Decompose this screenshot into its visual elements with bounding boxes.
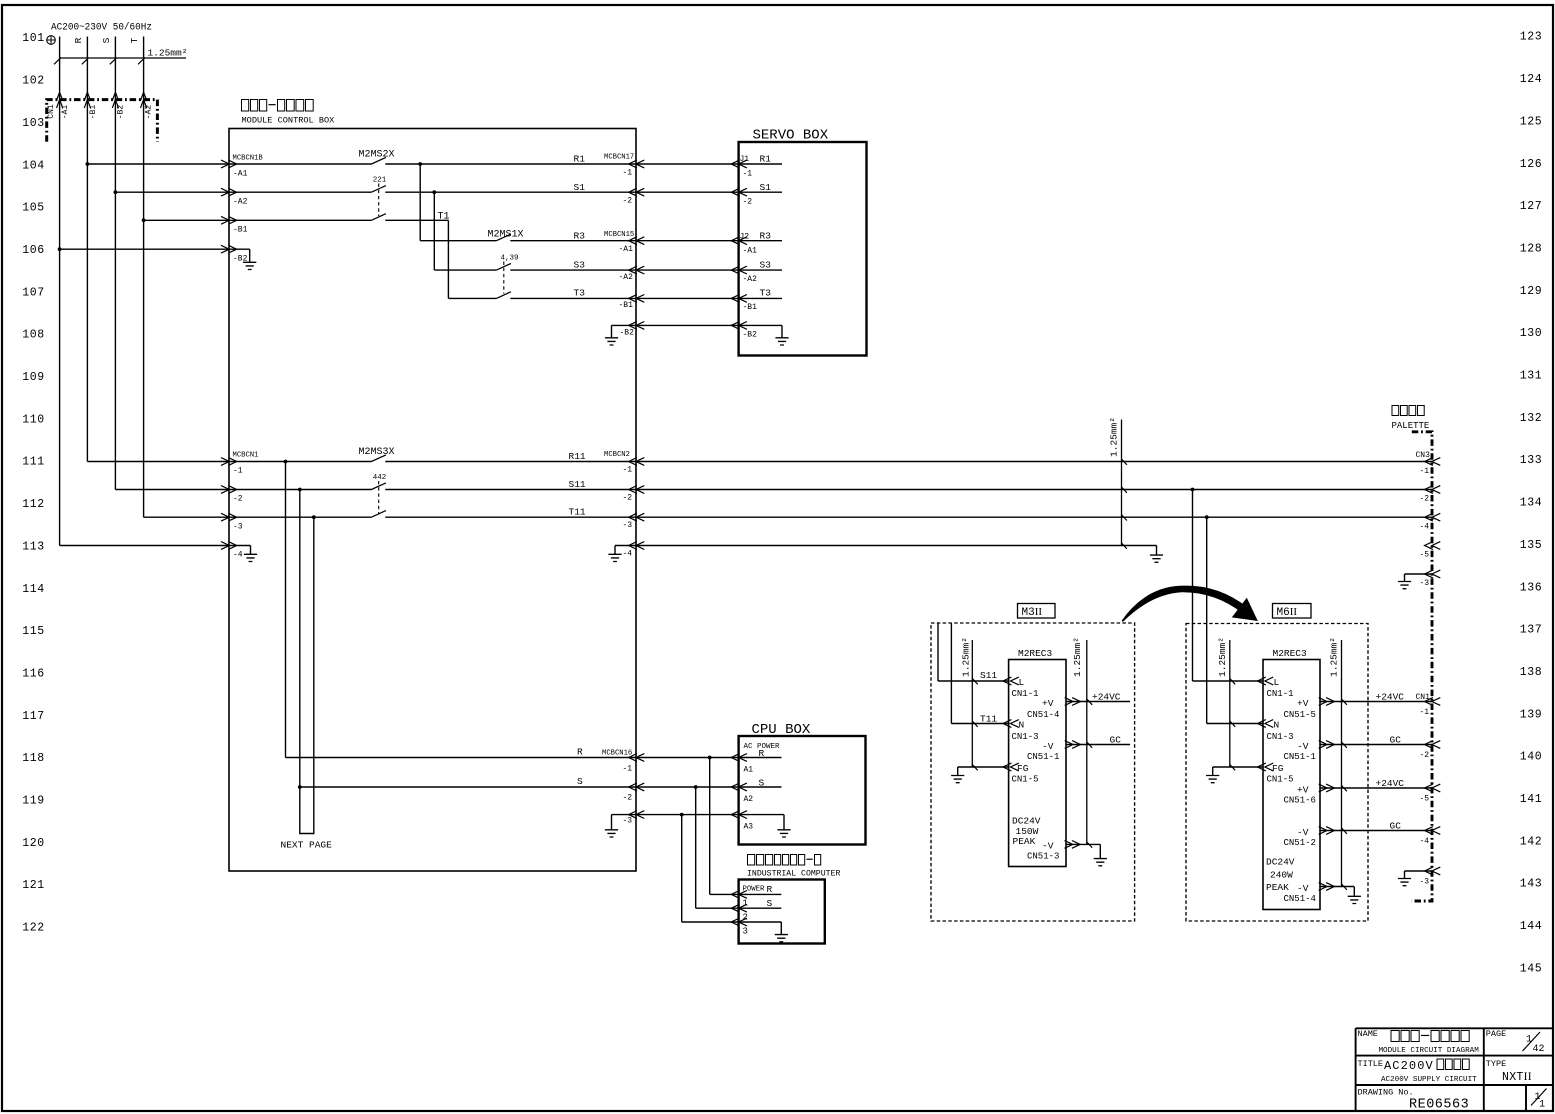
svg-text:-B1: -B1: [233, 226, 248, 235]
cable size 1.25mm2 marker (M6II left): [1217, 637, 1235, 767]
svg-text:R1: R1: [574, 154, 586, 165]
wire -3 ground stub (module side): [605, 811, 644, 837]
title block grid: [1356, 1028, 1553, 1112]
svg-text:123: 123: [1520, 31, 1543, 44]
svg-text:N: N: [1019, 720, 1025, 731]
svg-text:N: N: [1274, 720, 1280, 731]
wire phase R vertical: [73, 37, 87, 462]
pin label J1: [740, 155, 750, 164]
cable size 1.25mm2 marker (M3II right): [1072, 637, 1087, 844]
wire tap S11 down: [298, 490, 302, 826]
svg-text:131: 131: [1520, 370, 1543, 383]
svg-text:GC: GC: [1390, 821, 1402, 832]
svg-text:112: 112: [22, 498, 45, 511]
svg-text:1: 1: [743, 899, 748, 909]
svg-text:L: L: [1019, 677, 1025, 688]
label MODULE CONTROL BOX: [242, 116, 335, 126]
wire -V CN51-3 to ground (M3II): [1065, 841, 1107, 866]
svg-text:121: 121: [22, 879, 45, 892]
label INDUSTRIAL COMPUTER: [747, 870, 840, 879]
switch M2MS1X pole 2: [496, 255, 518, 271]
svg-text:-A1: -A1: [233, 170, 248, 179]
svg-text:-A2: -A2: [619, 273, 634, 282]
pin label -4: [233, 551, 243, 560]
svg-text:103: 103: [22, 117, 45, 130]
svg-text:-2: -2: [623, 494, 633, 503]
switch M2MS3X pole 2: [371, 474, 386, 490]
label M2MS2X: [359, 150, 395, 161]
svg-text:S3: S3: [760, 260, 772, 271]
svg-text:M6II: M6II: [1277, 606, 1298, 619]
svg-text:-2: -2: [623, 197, 633, 206]
pin label -2 (CN3): [1420, 495, 1430, 504]
pin label N (M6II): [1274, 720, 1280, 731]
node tap S1 to S3: [432, 190, 436, 270]
pin label +V CN51-6: [1297, 784, 1309, 795]
net label GC (2): [1390, 821, 1402, 832]
svg-text:-1: -1: [623, 765, 633, 774]
pin label -3 (CN1): [1420, 878, 1430, 887]
svg-text:MCBCN17: MCBCN17: [604, 154, 634, 162]
pin label -2 (MCBCN16): [623, 794, 633, 803]
connector label MCBCN1B: [233, 155, 264, 163]
svg-text:T11: T11: [569, 507, 586, 518]
switch M2MS2X pole 3: [371, 214, 386, 221]
wire -B1 / T1 vertical jog: [142, 212, 450, 299]
svg-text:MODULE CIRCUIT DIAGRAM: MODULE CIRCUIT DIAGRAM: [1379, 1047, 1480, 1055]
pin label -2 (MCBCN2): [623, 494, 633, 503]
svg-text:M2REC3: M2REC3: [1018, 648, 1053, 659]
pin label -3 (CN3): [1420, 579, 1430, 588]
grid row numbers right 123-145: [1520, 31, 1543, 976]
switch M2MS1X linkage (dashed): [503, 262, 505, 294]
pin label -2 (CN1): [1420, 751, 1430, 760]
svg-text:-3: -3: [623, 521, 633, 530]
svg-text:CN51-2: CN51-2: [1284, 838, 1316, 848]
pin label -B2 (module side): [620, 329, 635, 338]
connector label CN1 (palette): [1416, 693, 1431, 702]
pin label -B1 (servo): [743, 303, 758, 312]
title label PAGE: [1486, 1029, 1506, 1039]
svg-text:S1: S1: [574, 182, 586, 193]
svg-text:R11: R11: [569, 451, 586, 462]
pin label -3 (MCBCN2): [623, 521, 633, 530]
svg-text:T3: T3: [574, 288, 586, 299]
svg-text:137: 137: [1520, 624, 1543, 637]
svg-text:108: 108: [22, 329, 45, 342]
svg-text:142: 142: [1520, 835, 1543, 848]
module control box outline: [229, 129, 636, 872]
net label GC (1): [1390, 735, 1402, 746]
wire +V CN51-6 to palette CN1-5: [1319, 784, 1441, 792]
wire label R1 (servo): [760, 154, 772, 165]
wire -V output (M3II): [1065, 741, 1130, 749]
wire label R: [577, 747, 583, 758]
svg-text:136: 136: [1520, 581, 1543, 594]
wire -V CN51-4 to ground (M6II): [1319, 883, 1361, 904]
svg-text:122: 122: [22, 922, 45, 935]
svg-text:S11: S11: [569, 479, 586, 490]
wire -1 / R11 (row 111): [87, 458, 1440, 466]
grid row numbers left 101-122: [22, 32, 45, 934]
svg-text:-2: -2: [623, 794, 633, 803]
pin label 1: [743, 899, 748, 909]
connector CN3 pin -5 arrow: [1425, 542, 1441, 550]
svg-text:MCBCN15: MCBCN15: [604, 231, 634, 239]
svg-text:132: 132: [1520, 412, 1543, 425]
svg-text:139: 139: [1520, 708, 1543, 721]
svg-text:135: 135: [1520, 539, 1543, 552]
svg-text:+V: +V: [1297, 784, 1309, 795]
pin label CN1-5 (M3II): [1012, 774, 1039, 784]
connector CN1 boundary (dash-dot): [47, 100, 158, 142]
page number 1/42: [1523, 1032, 1545, 1055]
pin label -4 (CN3): [1420, 523, 1430, 532]
svg-text:NEXT PAGE: NEXT PAGE: [281, 840, 333, 851]
pin label -B2: [233, 255, 248, 264]
svg-text:-1: -1: [233, 467, 243, 476]
svg-text:S: S: [767, 898, 773, 909]
pin label -1 (CN3): [1420, 467, 1430, 476]
svg-text:MCBCN1: MCBCN1: [233, 452, 259, 460]
pin label +V (M3II): [1042, 698, 1054, 709]
svg-text:SERVO BOX: SERVO BOX: [753, 128, 829, 144]
pin label -B1: [89, 105, 98, 120]
svg-text:-A1: -A1: [619, 245, 634, 254]
drawing number RE06563: [1409, 1098, 1469, 1113]
svg-text:-1: -1: [743, 170, 753, 179]
pin label -V CN51-1: [1297, 741, 1309, 752]
variant arrow M3II to M6II: [1122, 586, 1258, 622]
svg-text:AC200V SUPPLY CIRCUIT: AC200V SUPPLY CIRCUIT: [1381, 1076, 1477, 1084]
wire S11 into M3II L pin: [938, 624, 1019, 685]
svg-text:-B2: -B2: [620, 329, 635, 338]
net label +24VC (1): [1376, 692, 1405, 703]
wire -2 / S11 (row 112): [115, 486, 1440, 494]
label CPU BOX: [752, 722, 811, 738]
svg-text:CN51-1: CN51-1: [1027, 752, 1059, 762]
wire label R1: [574, 154, 586, 165]
wire label T3: [574, 288, 586, 299]
net label +24VC (M3II): [1092, 692, 1121, 703]
wire CN3-3 ground stub: [1398, 570, 1440, 589]
connector label CN3: [1416, 451, 1431, 460]
pin label -5 (CN1): [1420, 795, 1430, 804]
svg-text:-A1: -A1: [743, 247, 758, 256]
wire label T11 (M3II): [980, 714, 997, 725]
pin label CN51-1 (M3II): [1027, 752, 1059, 762]
industrial computer box outline: [739, 880, 825, 944]
wire S to CPU (row 119): [300, 783, 782, 791]
svg-text:PEAK: PEAK: [1266, 882, 1289, 893]
svg-text:129: 129: [1520, 285, 1543, 298]
svg-text:POWER: POWER: [743, 886, 766, 894]
pin label -B1: [233, 226, 248, 235]
svg-text:J1: J1: [740, 155, 750, 164]
svg-text:INDUSTRIAL COMPUTER: INDUSTRIAL COMPUTER: [747, 870, 840, 879]
svg-text:A3: A3: [744, 823, 754, 832]
svg-text:CN1-1: CN1-1: [1267, 689, 1294, 699]
pin label -2 (servo): [743, 198, 753, 207]
svg-text:DC24V: DC24V: [1266, 857, 1295, 868]
pin label CN51-5: [1284, 710, 1316, 720]
svg-text:R: R: [577, 747, 583, 758]
svg-text:CN1: CN1: [47, 104, 56, 119]
svg-text:M3II: M3II: [1022, 606, 1043, 619]
pin label -B2 (servo): [743, 331, 758, 340]
wire S into computer: [696, 904, 782, 912]
svg-text:AC200~230V 50/60Hz: AC200~230V 50/60Hz: [51, 22, 152, 34]
wire FG to ground (M6II): [1206, 763, 1273, 783]
title label TITLE: [1358, 1059, 1384, 1069]
svg-text:-V: -V: [1297, 741, 1309, 752]
net label AC200~230V 50/60Hz: [51, 22, 152, 34]
svg-text:134: 134: [1520, 497, 1543, 510]
svg-text:-1: -1: [1420, 708, 1430, 717]
pin label -B2: [117, 105, 126, 120]
title MODULE CIRCUIT DIAGRAM: [1379, 1047, 1480, 1055]
pin label -4 (MCBCN2): [623, 550, 633, 559]
wire -B2 servo link with grounds: [605, 322, 789, 346]
svg-text:+24VC: +24VC: [1092, 692, 1121, 703]
svg-text:CN51-4: CN51-4: [1027, 710, 1059, 720]
title label DRAWING No.: [1358, 1088, 1414, 1098]
wire label R (computer): [767, 884, 773, 895]
wire label S11: [569, 479, 586, 490]
svg-text:1.25mm²: 1.25mm²: [1329, 637, 1340, 677]
net label GC (M3II): [1110, 735, 1122, 746]
pin label -A1: [233, 170, 248, 179]
pin label -V CN51-2: [1297, 827, 1309, 838]
svg-text:FG: FG: [1272, 763, 1284, 774]
svg-text:111: 111: [22, 456, 45, 469]
pin label -2: [623, 197, 633, 206]
wire T11 into M3II N pin: [951, 624, 1018, 728]
pin label L (M3II): [1019, 677, 1025, 688]
pin label -1: [233, 467, 243, 476]
pin label +V CN51-5: [1297, 698, 1309, 709]
svg-text:-2: -2: [233, 495, 243, 504]
svg-text:117: 117: [22, 710, 45, 723]
wire +V output (M3II): [1065, 698, 1130, 706]
M6II variant box (dashed): [1186, 624, 1368, 922]
svg-text:-4: -4: [1420, 523, 1430, 532]
label M6II: [1273, 604, 1312, 620]
svg-text:CN51-3: CN51-3: [1027, 852, 1059, 862]
wire tap T11 down: [313, 517, 315, 825]
wire CN1-3 ground stub: [1398, 867, 1440, 886]
wire phase E vertical: [59, 37, 61, 546]
svg-text:-B2: -B2: [233, 255, 248, 264]
svg-text:PEAK: PEAK: [1013, 836, 1036, 847]
svg-text:133: 133: [1520, 454, 1543, 467]
svg-text:RE06563: RE06563: [1409, 1098, 1469, 1113]
cable size 1.25mm2 marker (M3II left): [961, 637, 978, 767]
svg-text:S: S: [759, 778, 765, 789]
svg-text:M2REC3: M2REC3: [1273, 648, 1308, 659]
pin label CN51-1: [1284, 752, 1316, 762]
svg-text:-A2: -A2: [233, 198, 248, 207]
pin label CN51-6: [1284, 795, 1316, 805]
cable size 1.25mm2 marker (palette feed): [1109, 417, 1122, 545]
svg-text:CN1-3: CN1-3: [1012, 732, 1039, 742]
pin label CN51-4: [1284, 894, 1316, 904]
svg-text:TITLE: TITLE: [1358, 1059, 1384, 1069]
svg-text:R3: R3: [574, 231, 586, 242]
pin label -V (M3II): [1042, 741, 1054, 752]
svg-text:3: 3: [743, 927, 748, 937]
CPU box outline: [739, 736, 866, 845]
cable size label 1.25mm2 top: [54, 48, 187, 65]
svg-text:T1: T1: [438, 212, 450, 223]
pin label -1 (servo): [743, 170, 753, 179]
wire phase S vertical: [101, 37, 115, 490]
pin label -A2: [233, 198, 248, 207]
switch M2MS2X linkage (dashed): [378, 184, 380, 217]
svg-text:CN51-5: CN51-5: [1284, 710, 1316, 720]
svg-text:MCBCN1B: MCBCN1B: [233, 155, 264, 163]
wire -V CN51-1 to palette CN1-2: [1319, 741, 1441, 749]
switch M2MS3X pole 1: [359, 447, 395, 462]
switch M2MS1X pole 3: [496, 292, 511, 299]
svg-text:140: 140: [1520, 751, 1543, 764]
svg-text:A2: A2: [744, 795, 754, 804]
servo box outline: [739, 142, 867, 356]
svg-text:S: S: [101, 37, 112, 43]
pin label CN1-1 (M3II): [1012, 689, 1039, 699]
svg-text:T11: T11: [980, 714, 997, 725]
svg-text:R3: R3: [760, 231, 772, 242]
wire FG to ground (M3II): [951, 763, 1019, 783]
svg-text:PALETTE: PALETTE: [1392, 421, 1430, 431]
svg-text:1.25mm²: 1.25mm²: [1072, 637, 1083, 677]
wire label S3: [574, 260, 586, 271]
net label +24VC (2): [1376, 778, 1405, 789]
svg-text:141: 141: [1520, 793, 1543, 806]
wire -B2 to ground (row 106): [58, 245, 257, 269]
svg-text:DRAWING No.: DRAWING No.: [1358, 1088, 1414, 1098]
pin label -3 (MCBCN16): [623, 816, 633, 825]
svg-text:S11: S11: [980, 670, 997, 681]
wire label S1 (servo): [760, 182, 772, 193]
pin label CN51-4 (M3II): [1027, 710, 1059, 720]
title AC200V (JP): [1384, 1059, 1469, 1073]
svg-text:+V: +V: [1042, 698, 1054, 709]
label palette (JP): [1392, 406, 1424, 416]
M3II variant box (dashed): [931, 623, 1135, 921]
node tap R1 to R3: [418, 162, 422, 241]
label module control box (JP): [242, 100, 314, 112]
wire T3: [448, 295, 782, 303]
pin label -V CN51-4: [1297, 883, 1309, 894]
pin label N (M3II): [1019, 720, 1025, 731]
svg-text:107: 107: [22, 286, 45, 299]
pin label CN51-2: [1284, 838, 1316, 848]
svg-text:MCBCN16: MCBCN16: [602, 750, 632, 758]
switch M2MS2X pole 2: [371, 177, 386, 193]
pin label A1: [744, 766, 754, 775]
wire -3 to CPU A3: [636, 811, 791, 837]
pin label J2: [740, 233, 750, 242]
svg-text:M2MS1X: M2MS1X: [488, 230, 524, 241]
next page bracket: [281, 826, 333, 851]
svg-text:-5: -5: [1420, 795, 1430, 804]
svg-text:MODULE CONTROL BOX: MODULE CONTROL BOX: [242, 116, 335, 126]
wire label R (CPU): [759, 748, 765, 759]
svg-text:138: 138: [1520, 666, 1543, 679]
svg-text:-2: -2: [1420, 495, 1430, 504]
pin label A2: [744, 795, 754, 804]
title module circuit diagram (JP): [1391, 1031, 1469, 1042]
pin label CN1-5 (M6II): [1267, 774, 1294, 784]
svg-text:+V: +V: [1297, 698, 1309, 709]
pin label CN1-3 (M6II): [1267, 732, 1294, 742]
svg-text:M2MS3X: M2MS3X: [359, 447, 395, 458]
svg-text:127: 127: [1520, 200, 1543, 213]
connector label MCBCN16: [602, 750, 632, 758]
svg-text:-1: -1: [623, 169, 633, 178]
svg-text:118: 118: [22, 752, 45, 765]
power supply M2REC3 outline (M3II): [1009, 660, 1066, 867]
wire phase T vertical: [129, 37, 144, 518]
switch M2MS1X pole 1: [488, 230, 524, 241]
svg-text:MCBCN2: MCBCN2: [604, 451, 630, 459]
svg-text:-3: -3: [233, 523, 243, 532]
type NXTII: [1502, 1071, 1532, 1084]
svg-text:125: 125: [1520, 115, 1543, 128]
wire label S11 (M3II): [980, 670, 997, 681]
label M2REC3 (M3II): [1018, 648, 1053, 659]
title label TYPE: [1486, 1059, 1506, 1069]
wire -V CN51-2 to palette CN1-4: [1319, 827, 1441, 835]
svg-text:S1: S1: [760, 182, 772, 193]
switch M2MS2X pole 1: [371, 157, 386, 164]
svg-text:GC: GC: [1110, 735, 1122, 746]
wire R into computer: [710, 891, 782, 899]
wire label S3 (servo): [760, 260, 772, 271]
palette boundary (dash-dot): [1412, 432, 1433, 901]
pin label -4 (CN1): [1420, 837, 1430, 846]
svg-text:1.25mm²: 1.25mm²: [1109, 417, 1120, 457]
pin label CN1: [47, 104, 56, 119]
svg-text:106: 106: [22, 244, 45, 257]
wire 3 into computer with ground: [682, 918, 788, 942]
svg-text:4,39: 4,39: [501, 255, 519, 263]
wire -4 earth (row 113) right run to ground: [608, 542, 1163, 563]
label POWER: [743, 886, 766, 894]
wire label R3: [574, 231, 586, 242]
svg-text:-B1: -B1: [89, 105, 98, 120]
pin label -1 (CN1): [1420, 708, 1430, 717]
svg-text:102: 102: [22, 75, 45, 88]
svg-text:101: 101: [22, 32, 45, 45]
svg-text:109: 109: [22, 371, 45, 384]
svg-text:1.25mm²: 1.25mm²: [961, 637, 972, 677]
label AC POWER: [744, 743, 781, 751]
pin label -A2 (servo): [743, 275, 758, 284]
svg-text:110: 110: [22, 413, 45, 426]
wire S3: [434, 266, 782, 274]
svg-text:M2MS2X: M2MS2X: [359, 150, 395, 161]
pin label CN51-3 (M3II): [1027, 852, 1059, 862]
wire tap R11 down to CPU: [285, 462, 287, 758]
svg-text:CN3: CN3: [1416, 451, 1431, 460]
pin label -2: [233, 495, 243, 504]
svg-text:R: R: [73, 37, 84, 43]
svg-text:NXTII: NXTII: [1502, 1071, 1532, 1084]
svg-text:CN51-6: CN51-6: [1284, 795, 1316, 805]
title label NAME: [1358, 1029, 1378, 1039]
